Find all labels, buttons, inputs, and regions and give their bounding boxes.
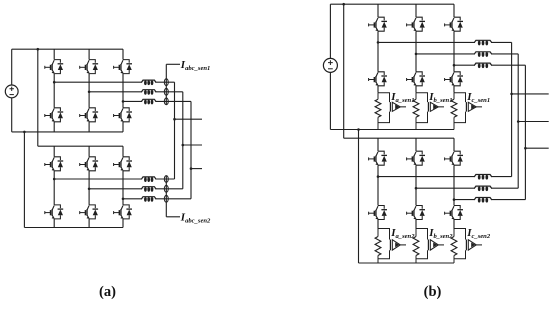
inductor: bridge B1 phase c filter: [474, 63, 492, 68]
wire: bridge A1 leg b midpoint: [88, 74, 90, 108]
IGBT bridge A1 high-side phase c: [114, 60, 132, 74]
inductor: bridge B1 phase a filter: [474, 40, 492, 45]
IGBT bridge B2 low-side phase b: [407, 206, 425, 220]
wire: bridge A1 leg b bottom: [88, 122, 90, 132]
wire: bridge B1 leg c top: [453, 4, 455, 17]
shunt resistor + amplifier, bridge B1 phase c: [453, 93, 455, 100]
wire: bridge B2 leg c midpoint: [453, 165, 455, 205]
wire: bridge A2 leg a top: [53, 146, 55, 157]
wire: bridge B2 leg c top: [453, 138, 455, 151]
node: bridge B1 phase a output: [377, 41, 380, 44]
junction: DC- tap for bridge A2: [23, 131, 26, 134]
wire: phase b paralleling bus: [182, 92, 184, 189]
wire: bridge B1 phase c to filter: [454, 64, 525, 66]
shunt resistor + amplifier, bridge B2 phase b: [415, 229, 417, 237]
node: bridge B2 phase c output: [453, 198, 456, 201]
wire: sensor group 2 sense line: [165, 176, 167, 217]
current sensor: bridge A1 phase c: [164, 98, 168, 105]
inductor: bridge A1 phase c filter: [141, 99, 156, 104]
IGBT bridge A1 high-side phase b: [80, 60, 98, 74]
wire: bridge B1 phase a to filter: [378, 41, 512, 43]
wire: bridge B1 leg b top: [415, 4, 417, 17]
wire: bridge B2 leg a top: [377, 138, 379, 151]
junction: DC+ tap for bridge B2: [342, 3, 345, 6]
junction: phase c output terminal (b): [524, 147, 527, 150]
wire: bridge B2 leg b to shunt: [415, 220, 417, 229]
wire: bridge A1 leg a midpoint: [53, 74, 55, 108]
wire: bridge B1 leg b midpoint: [415, 31, 417, 72]
wire: V1 positive lead up: [11, 49, 13, 85]
junction: phase c output terminal: [190, 167, 193, 170]
wire: bridge B2 leg c to shunt: [453, 220, 455, 229]
wire: sense line 2 to label: [166, 216, 180, 218]
junction: phase b output terminal: [182, 144, 185, 147]
IGBT bridge B2 high-side phase b: [407, 151, 425, 165]
wire: sense line 1 to label: [166, 63, 180, 65]
IGBT bridge B1 low-side phase a: [369, 72, 387, 86]
wire: bridge A2 phase b to filter: [89, 188, 183, 190]
IGBT bridge A1 high-side phase a: [45, 60, 63, 74]
wire: bridge B1 phase b to filter: [416, 53, 518, 55]
current sensor: bridge A1 phase a: [164, 79, 168, 86]
wire: DC- rail bridge A2: [24, 227, 123, 229]
IGBT bridge A2 low-side phase b: [80, 205, 98, 219]
IGBT bridge B1 low-side phase c: [445, 72, 463, 86]
junction: DC+ tap for bridge A2: [37, 48, 40, 51]
wire: bridge A1 phase b to filter: [89, 91, 183, 93]
wire: phase b output stub: [183, 144, 202, 146]
wire: bridge B2 leg b midpoint: [415, 165, 417, 205]
current sensor: bridge A2 phase c: [164, 195, 168, 202]
IGBT bridge A2 high-side phase a: [45, 157, 63, 171]
wire: bridge A2 leg c midpoint: [122, 171, 124, 205]
IGBT bridge A2 high-side phase b: [80, 157, 98, 171]
node: bridge A1 phase c output: [122, 100, 125, 103]
wire: DC- rail bridge A1: [12, 131, 123, 133]
node: bridge A2 phase a output: [53, 178, 56, 181]
inductor: bridge B2 phase b filter: [474, 186, 492, 191]
inductor: bridge A1 phase b filter: [141, 90, 156, 95]
inductor: bridge B2 phase c filter: [474, 198, 492, 203]
voltage source V2 (dc source, circuit b): [323, 58, 337, 72]
IGBT bridge A2 high-side phase c: [114, 157, 132, 171]
wire: V2 positive lead up: [329, 4, 331, 58]
inductor: bridge B1 phase b filter: [474, 52, 492, 57]
shunt resistor + amplifier, bridge B1 phase b: [415, 93, 417, 100]
wire: bridge A2 leg b top: [88, 146, 90, 157]
inductor: bridge A2 phase c filter: [141, 197, 156, 202]
wire: DC- rail bridge B1: [330, 129, 454, 131]
wire: bridge A2 leg c top: [122, 146, 124, 157]
shunt resistor + amplifier, bridge B2 phase a: [377, 229, 379, 237]
IGBT bridge B1 high-side phase c: [445, 17, 463, 31]
wire: phase a paralleling bus: [174, 82, 176, 179]
wire: bridge A2 leg a bottom: [53, 219, 55, 228]
wire: DC+ rail bridge B1: [330, 3, 454, 5]
IGBT bridge B2 high-side phase c: [445, 151, 463, 165]
wire: bridge A2 leg b bottom: [88, 219, 90, 228]
shunt resistor + amplifier, bridge B1 phase a: [377, 93, 379, 100]
wire: phase a paralleling bus (b): [511, 42, 513, 176]
IGBT bridge B1 high-side phase a: [369, 17, 387, 31]
wire: phase c output stub: [191, 168, 202, 170]
IGBT bridge B2 low-side phase a: [369, 206, 387, 220]
wire: phase c paralleling bus: [190, 101, 192, 198]
svg-text:(a): (a): [99, 284, 116, 300]
wire: bridge B1 leg a to shunt: [377, 86, 379, 93]
IGBT bridge B2 low-side phase c: [445, 206, 463, 220]
wire: bridge B2 leg b top: [415, 138, 417, 151]
wire: bridge B2 phase c to filter: [454, 199, 525, 201]
wire: V2 negative lead down: [329, 72, 331, 129]
node: bridge A2 phase b output: [88, 188, 91, 191]
wire: bridge B2 leg a midpoint: [377, 165, 379, 205]
wire: bridge A1 phase a to filter: [54, 81, 174, 83]
wire: bridge A2 phase c to filter: [123, 198, 191, 200]
inductor: bridge B2 phase a filter: [474, 175, 492, 180]
voltage source V1 (dc source, circuit a): [5, 85, 18, 98]
wire: bridge A2 leg b midpoint: [88, 171, 90, 205]
node: bridge A2 phase c output: [122, 198, 125, 201]
wire: DC+ drop to bridge A2: [37, 49, 39, 146]
IGBT bridge B2 high-side phase a: [369, 151, 387, 165]
wire: bridge A2 leg a midpoint: [53, 171, 55, 205]
wire: DC- drop to bridge B2: [358, 130, 360, 264]
IGBT bridge A1 low-side phase a: [45, 108, 63, 122]
IGBT bridge A1 low-side phase c: [114, 108, 132, 122]
node: bridge B2 phase a output: [377, 175, 380, 178]
wire: bridge A1 phase c to filter: [123, 100, 191, 102]
wire: phase b output stub (b): [518, 121, 549, 123]
current sensor: bridge A2 phase b: [164, 185, 168, 192]
wire: bridge A1 leg c midpoint: [122, 74, 124, 108]
wire: phase c output stub (b): [525, 147, 548, 149]
wire: bridge B2 phase a to filter: [378, 176, 512, 178]
wire: DC+ rail bridge A1: [12, 48, 123, 50]
node: bridge B1 phase b output: [415, 53, 418, 56]
wire: phase a output stub: [175, 118, 203, 120]
wire: DC- drop to bridge A2: [23, 132, 25, 228]
wire: bridge A1 leg c bottom: [122, 122, 124, 132]
wire: DC+ drop to bridge B2: [343, 4, 345, 138]
wire: phase b paralleling bus (b): [517, 54, 519, 188]
wire: bridge B1 leg c midpoint: [453, 31, 455, 72]
wire: bridge A1 leg c top: [122, 49, 124, 59]
wire: sensor group 1 sense line: [165, 64, 167, 105]
wire: bridge B2 phase b to filter: [416, 187, 518, 189]
junction: phase a output terminal (b): [510, 93, 513, 96]
inductor: bridge A2 phase b filter: [141, 187, 156, 192]
wire: bridge B1 leg a top: [377, 4, 379, 17]
wire: DC+ rail bridge B2: [344, 137, 454, 139]
node: bridge A1 phase a output: [53, 81, 56, 84]
wire: bridge A2 phase a to filter: [54, 178, 174, 180]
wire: bridge A1 leg a top: [53, 49, 55, 59]
IGBT bridge B1 high-side phase b: [407, 17, 425, 31]
junction: phase b output terminal (b): [517, 120, 520, 123]
wire: DC+ rail bridge A2: [38, 145, 123, 147]
node: bridge B2 phase b output: [415, 187, 418, 190]
wire: bridge A1 leg a bottom: [53, 122, 55, 132]
wire: bridge B1 leg b to shunt: [415, 86, 417, 93]
wire: bridge A2 leg c bottom: [122, 219, 124, 228]
wire: bridge B1 leg c to shunt: [453, 86, 455, 93]
wire: phase c paralleling bus (b): [524, 65, 526, 199]
current sensor: bridge A1 phase b: [164, 88, 168, 95]
wire: DC- rail bridge B2: [359, 262, 455, 264]
wire: V1 negative lead down: [11, 98, 13, 132]
wire: phase a output stub (b): [512, 93, 549, 95]
IGBT bridge A2 low-side phase c: [114, 205, 132, 219]
wire: bridge B2 leg a to shunt: [377, 220, 379, 229]
IGBT bridge A1 low-side phase b: [80, 108, 98, 122]
IGBT bridge B1 low-side phase b: [407, 72, 425, 86]
current sensor: bridge A2 phase a: [164, 176, 168, 183]
inductor: bridge A2 phase a filter: [141, 177, 156, 182]
junction: DC- tap for bridge B2: [357, 128, 360, 131]
node: bridge B1 phase c output: [453, 64, 456, 67]
node: bridge A1 phase b output: [88, 91, 91, 94]
junction: phase a output terminal: [173, 118, 176, 121]
wire: bridge B1 leg a midpoint: [377, 31, 379, 72]
wire: bridge A1 leg b top: [88, 49, 90, 59]
IGBT bridge A2 low-side phase a: [45, 205, 63, 219]
shunt resistor + amplifier, bridge B2 phase c: [453, 229, 455, 237]
svg-text:(b): (b): [424, 284, 442, 300]
inductor: bridge A1 phase a filter: [141, 80, 156, 85]
